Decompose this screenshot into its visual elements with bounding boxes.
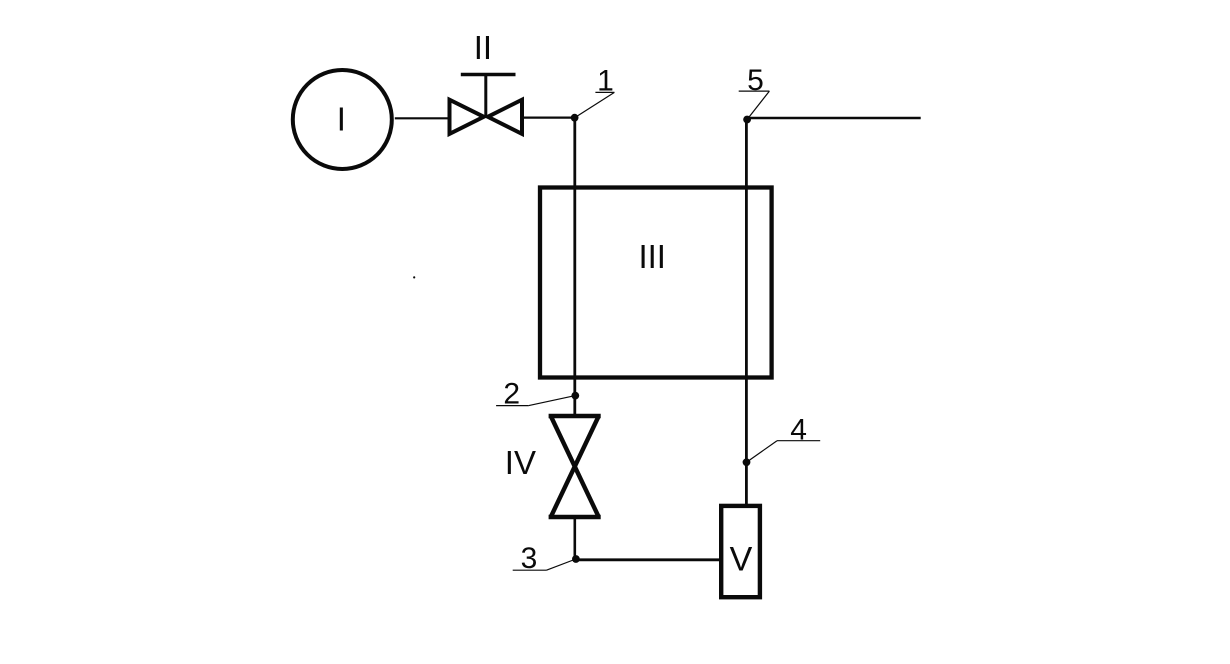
svg-text:I: I: [337, 101, 346, 138]
svg-text:5: 5: [747, 64, 764, 97]
svg-text:V: V: [730, 541, 753, 579]
svg-text:IV: IV: [505, 444, 536, 481]
svg-text:4: 4: [790, 414, 807, 447]
svg-text:III: III: [638, 238, 666, 275]
svg-text:2: 2: [503, 378, 520, 411]
svg-text:II: II: [474, 29, 492, 66]
svg-text:3: 3: [521, 542, 538, 575]
svg-text:1: 1: [597, 65, 614, 98]
